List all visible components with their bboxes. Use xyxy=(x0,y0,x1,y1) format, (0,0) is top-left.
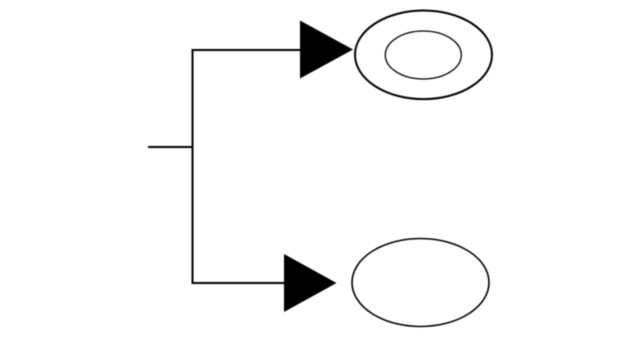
node top inner ellipse xyxy=(385,31,461,79)
arrowhead top xyxy=(300,21,353,79)
wire stub (input marker) xyxy=(148,146,193,148)
wire top branch xyxy=(192,49,302,51)
arrowhead bottom xyxy=(284,254,337,312)
wire bottom branch xyxy=(192,282,286,284)
node bottom ellipse (state) xyxy=(352,239,489,327)
node top outer ellipse (accepting state) xyxy=(355,11,492,100)
wire vertical trunk xyxy=(192,49,194,284)
